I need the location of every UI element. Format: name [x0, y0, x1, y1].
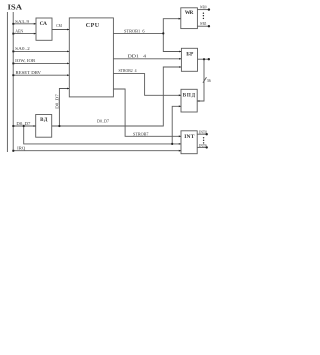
arrow into BR pin 2 — [179, 58, 181, 60]
junction dot BR output — [203, 58, 205, 60]
arrow into VPD pin 2 — [179, 105, 181, 107]
svg-text:RESET DRV: RESET DRV — [16, 70, 42, 75]
wire SA3..9 — [13, 23, 36, 25]
block VD — [36, 115, 52, 138]
arrow into INT pin 2 — [179, 143, 181, 145]
arrow into CPU pin CM — [67, 29, 69, 31]
terminal dot INT0 — [206, 133, 208, 135]
arrow into CA pin AEN — [34, 33, 36, 35]
bus tap dots — [12, 23, 14, 25]
arrow into VD pin D0..D7 — [34, 125, 36, 127]
svg-text:36: 36 — [207, 78, 211, 83]
svg-text:D0..D7: D0..D7 — [97, 118, 110, 123]
junction dot CPU riser on D0..D7 — [58, 125, 60, 127]
junction dot D0..D7 drop — [23, 125, 25, 127]
wire D0..D7 drop to INT (line A) — [24, 126, 181, 144]
svg-text:WR0: WR0 — [200, 6, 207, 10]
svg-text:DD1 4: DD1 4 — [128, 53, 148, 58]
svg-text:D0..D7: D0..D7 — [16, 121, 31, 126]
wire D0..D7 to VD — [13, 125, 36, 127]
wire INT output INT0 — [197, 133, 207, 135]
wire DD1 to BR — [113, 58, 181, 60]
svg-text:D0..D7: D0..D7 — [55, 94, 60, 109]
wire BR output down to VPD right — [197, 59, 204, 101]
arrow into WR pin — [179, 18, 181, 20]
wire WR output WR0 — [197, 9, 209, 11]
wire BR output — [198, 58, 209, 60]
wire INT output INT6 — [197, 146, 207, 148]
svg-text:AEN: AEN — [15, 29, 24, 34]
wire VPD second input from line A — [172, 106, 181, 144]
svg-text:WR5: WR5 — [200, 22, 206, 26]
svg-text:БР: БР — [186, 51, 194, 57]
svg-text:ISA: ISA — [8, 4, 23, 12]
ISA bus right line — [12, 12, 14, 152]
wire SA0..2 — [13, 50, 69, 52]
svg-text:SA0..2: SA0..2 — [15, 46, 30, 51]
terminal dot BR out — [208, 58, 210, 60]
wire CM — [52, 29, 69, 31]
wire STROB1 branch down to BR — [163, 33, 181, 51]
terminal dot INT6 — [206, 146, 208, 148]
svg-text:CA: CA — [40, 21, 47, 27]
arrow into BR pin 3 — [179, 66, 181, 68]
svg-text:CM: CM — [56, 23, 62, 28]
svg-text:INT: INT — [184, 134, 195, 140]
svg-text:IRQ: IRQ — [17, 145, 26, 150]
bus width slash 36 — [203, 77, 207, 83]
block CPU — [69, 18, 113, 97]
svg-text:STROB1 6: STROB1 6 — [124, 29, 145, 34]
svg-text:STROB7: STROB7 — [133, 131, 149, 136]
terminal dot WR5 — [208, 25, 210, 27]
arrow into CPU pin D0..D7 — [67, 88, 69, 90]
terminal dot WR0 — [208, 8, 210, 10]
arrow into CA pin SA3..9 — [34, 23, 36, 25]
arrow into INT pin STROB7 — [179, 135, 181, 137]
ISA bus left line — [6, 12, 8, 152]
svg-text:ВД: ВД — [40, 118, 48, 123]
arrow into CPU pin SA0..2 — [67, 51, 69, 53]
arrow into BR pin 1 — [179, 51, 181, 53]
wire STROB1 from CPU — [113, 32, 163, 34]
wire AEN — [13, 33, 36, 35]
wire VD output D0..D7 to BR — [52, 67, 182, 126]
arrow into INT pin IRQ — [179, 150, 181, 152]
wire WR output WR5 — [197, 25, 209, 27]
block VPD — [181, 89, 197, 112]
wire IOW,IOR — [13, 62, 69, 64]
svg-text:ВПД: ВПД — [183, 93, 196, 98]
wire STROB7 to INT — [113, 89, 181, 136]
wire STROB1 branch up to WR — [163, 19, 181, 34]
wire RESET DRV — [13, 74, 69, 76]
arrow into CPU pin IOW,IOR — [67, 63, 69, 65]
arrow into VPD pin STROB2 — [179, 94, 181, 96]
svg-text:STROB2 4: STROB2 4 — [119, 68, 138, 73]
arrow into VPD right pin — [197, 100, 199, 102]
wire CPU data riser D0..D7 — [59, 89, 69, 127]
block INT — [181, 131, 197, 154]
svg-text:WR: WR — [185, 10, 195, 16]
svg-text:INT6: INT6 — [199, 144, 207, 148]
svg-text:CPU: CPU — [86, 23, 100, 29]
block CA — [36, 18, 52, 40]
svg-text:SA3..9: SA3..9 — [15, 19, 30, 24]
arrow into CPU pin RESET DRV — [67, 74, 69, 76]
block BR — [181, 48, 197, 71]
svg-text:INT0: INT0 — [199, 130, 207, 134]
WR ellipsis dots — [203, 13, 204, 14]
junction dot STROB1 tee — [162, 32, 164, 34]
junction dot VPD on line A — [171, 143, 173, 145]
INT ellipsis dots — [203, 137, 204, 138]
wire IRQ — [13, 150, 181, 152]
wire STROB2 to VPD — [113, 74, 181, 96]
block WR — [181, 8, 198, 29]
